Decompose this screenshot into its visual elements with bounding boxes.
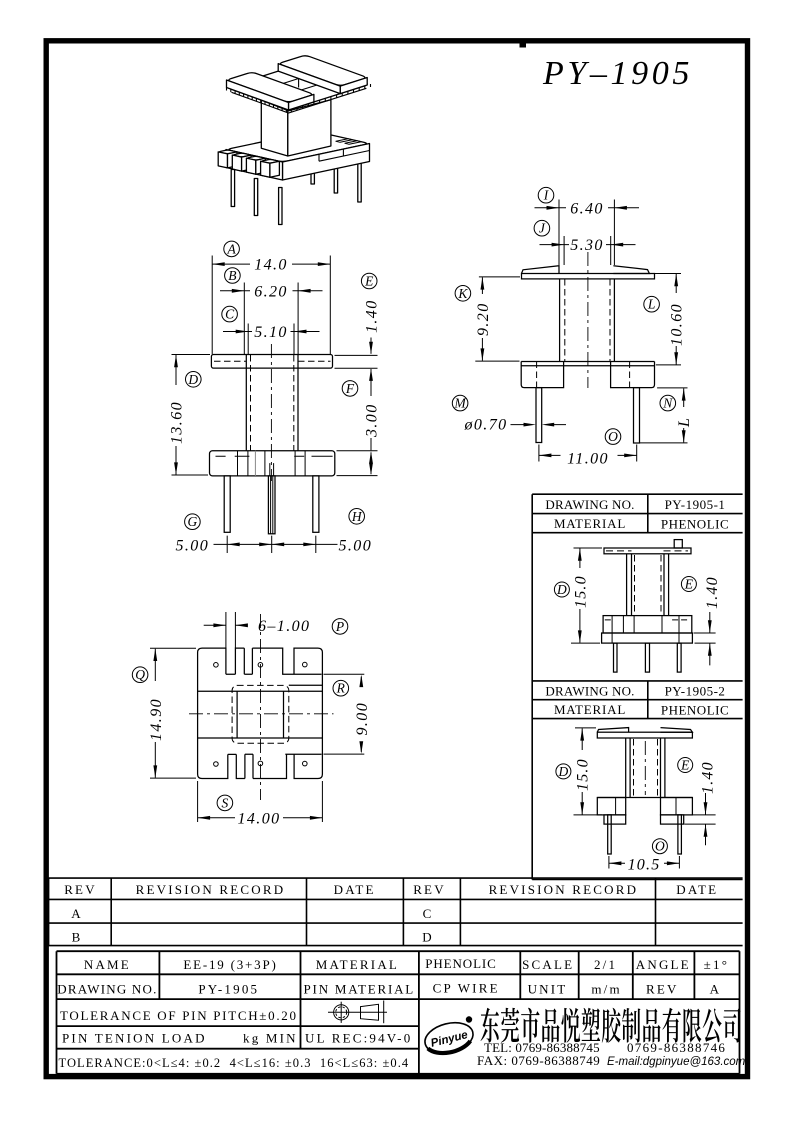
svg-text:6.20: 6.20 [254, 283, 288, 300]
svg-text:DRAWING NO.: DRAWING NO. [545, 497, 634, 512]
svg-text:PY-1905: PY-1905 [198, 981, 259, 996]
right taper [661, 728, 693, 733]
svg-text:10.5: 10.5 [628, 857, 661, 874]
svg-text:C: C [423, 906, 434, 921]
svg-text:M: M [453, 396, 466, 411]
svg-text:UNIT: UNIT [528, 981, 568, 996]
dim 1.40 [694, 633, 716, 643]
svg-text:15.0: 15.0 [575, 758, 592, 791]
hidden in blocks [537, 362, 630, 388]
logo dot [466, 1016, 472, 1022]
pin 2 [268, 476, 275, 534]
slot floors [226, 648, 253, 674]
svg-text:TOLERANCE:0<L≤4: ±0.2 4<L≤16:: TOLERANCE:0<L≤4: ±0.2 4<L≤16: ±0.3 16<L≤… [59, 1056, 410, 1070]
node D [556, 764, 571, 779]
node J [534, 220, 550, 236]
tab [674, 540, 682, 548]
iso front pin 2 [254, 179, 257, 216]
svg-text:DATE: DATE [334, 882, 376, 897]
node I [538, 187, 554, 203]
frame tab mark [520, 39, 527, 48]
svg-text:PY-1905-2: PY-1905-2 [665, 683, 726, 698]
svg-text:MATERIAL: MATERIAL [554, 702, 626, 717]
tube edges [560, 279, 615, 362]
svg-text:15.0: 15.0 [573, 575, 590, 608]
node Q [132, 667, 148, 683]
top flange bar [522, 274, 655, 279]
svg-text:UL REC:94V-0: UL REC:94V-0 [305, 1030, 412, 1045]
svg-text:A: A [710, 981, 722, 996]
svg-text:1.40: 1.40 [700, 761, 717, 794]
dim L [640, 388, 693, 443]
inner window [237, 691, 283, 738]
svg-text:D: D [187, 372, 198, 387]
node M [452, 395, 468, 411]
dim 5.10 [223, 324, 320, 355]
centerline [587, 252, 589, 388]
svg-text:ø0.70: ø0.70 [464, 417, 508, 434]
iso rear pin 4 [311, 163, 314, 184]
pin 3 [313, 476, 319, 532]
company name CJK 东莞市品悦塑胶制品有限公司 [481, 1008, 741, 1043]
svg-text:TOLERANCE OF PIN PITCH±0.20: TOLERANCE OF PIN PITCH±0.20 [60, 1008, 298, 1023]
svg-text:Q: Q [135, 667, 145, 682]
svg-text:B: B [228, 268, 236, 283]
top flange bar [597, 732, 692, 738]
node A [224, 241, 240, 257]
iso base rear notches [336, 139, 352, 143]
hub lines [198, 691, 323, 738]
svg-text:5.00: 5.00 [339, 537, 373, 554]
node P [332, 619, 348, 635]
flange left taper [522, 266, 560, 274]
dim 13.60 [169, 355, 211, 476]
top flange [211, 355, 332, 369]
svg-text:6–1.00: 6–1.00 [258, 618, 310, 635]
svg-text:REV: REV [646, 981, 679, 996]
Pinyue logo [422, 1018, 477, 1058]
svg-text:EE-19 (3+3P): EE-19 (3+3P) [183, 957, 277, 972]
svg-text:O: O [608, 429, 618, 444]
node E [681, 577, 696, 592]
svg-text:E: E [680, 758, 690, 773]
bore hidden [565, 279, 610, 362]
svg-text:D: D [422, 929, 434, 944]
node B [225, 268, 241, 284]
svg-text:PIN TENION LOAD: PIN TENION LOAD [62, 1030, 207, 1045]
dim 9.00 [324, 674, 371, 754]
node E [678, 758, 693, 773]
view PY-1905-2 [556, 728, 717, 874]
svg-text:G: G [188, 514, 198, 529]
collars [604, 815, 626, 824]
iso base body [229, 132, 367, 162]
svg-text:PIN MATERIAL: PIN MATERIAL [304, 981, 416, 996]
svg-text:2/1: 2/1 [594, 957, 617, 972]
svg-text:PHENOLIC: PHENOLIC [661, 703, 729, 718]
svg-text:9.20: 9.20 [475, 302, 492, 336]
centerline [270, 344, 272, 481]
iso flange slab front [229, 73, 312, 102]
svg-text:1.40: 1.40 [704, 576, 721, 609]
dim 10.60 [655, 274, 686, 365]
svg-text:E: E [684, 577, 694, 592]
base right block [611, 362, 655, 388]
svg-text:O: O [655, 839, 665, 854]
hidden core square [232, 685, 289, 743]
node K [455, 286, 471, 302]
iso base tooth 3 [248, 156, 264, 160]
top bar [604, 548, 691, 554]
svg-text:m/m: m/m [591, 981, 621, 996]
iso base wire slot panel [319, 151, 370, 162]
panel borders [532, 494, 742, 879]
iso top flange plate [230, 63, 367, 109]
dim 9.20 [475, 277, 520, 361]
svg-text:MATERIAL: MATERIAL [316, 957, 399, 972]
svg-text:K: K [457, 286, 468, 301]
svg-text:DRAWING NO.: DRAWING NO. [57, 981, 157, 996]
svg-text:D: D [558, 764, 569, 779]
v centerline [260, 614, 262, 800]
svg-text:REVISION RECORD: REVISION RECORD [136, 882, 286, 897]
svg-text:11.00: 11.00 [567, 450, 609, 467]
svg-text:J: J [539, 221, 546, 236]
flange interior [238, 451, 306, 476]
svg-text:PY–1905: PY–1905 [542, 55, 693, 92]
svg-text:FAX: 0769-86388749: FAX: 0769-86388749 [477, 1053, 600, 1068]
node O [605, 429, 621, 445]
iso front pin 1 [231, 170, 234, 207]
node E [361, 273, 377, 289]
svg-text:REV: REV [64, 882, 97, 897]
iso rear pin 5 [334, 160, 337, 193]
node D [554, 582, 569, 597]
dim 14.90 [148, 648, 196, 778]
iso winding tube [261, 100, 288, 156]
dim 11.00 [539, 445, 637, 468]
dim 6.40 [535, 200, 640, 266]
legs [627, 554, 669, 616]
svg-text:CP WIRE: CP WIRE [433, 980, 500, 995]
svg-text:3.00: 3.00 [364, 403, 381, 438]
svg-text:L: L [647, 297, 656, 312]
iso base tooth 4 [262, 160, 278, 164]
iso base tooth 1 [219, 150, 235, 154]
base [597, 797, 692, 799]
svg-text:PY-1905-1: PY-1905-1 [665, 497, 726, 512]
svg-text:14.90: 14.90 [148, 698, 165, 741]
iso front pin 3 [279, 188, 282, 225]
svg-text:10.60: 10.60 [669, 303, 686, 346]
svg-text:kg MIN: kg MIN [243, 1030, 298, 1045]
base [603, 616, 692, 633]
node D [186, 372, 202, 388]
svg-text:A: A [71, 906, 83, 921]
flange hidden line [214, 360, 331, 362]
node H [349, 509, 365, 525]
svg-text:REVISION RECORD: REVISION RECORD [489, 882, 639, 897]
pins [614, 643, 618, 672]
svg-text:L: L [676, 417, 693, 428]
svg-text:P: P [335, 619, 344, 634]
svg-text:MATERIAL: MATERIAL [554, 516, 626, 531]
base [521, 361, 654, 363]
projection symbol cone [328, 1001, 387, 1024]
iso flange slab rear [281, 56, 365, 85]
svg-text:DATE: DATE [676, 882, 718, 897]
node R [333, 680, 349, 696]
dim 14.0 [212, 256, 330, 355]
flange right taper [613, 266, 649, 274]
svg-text:5.10: 5.10 [254, 324, 288, 341]
svg-text:E-mail:dgpinyue@163.com: E-mail:dgpinyue@163.com [607, 1056, 746, 1068]
dim 1.40 [685, 815, 716, 824]
iso core bore opening [272, 79, 316, 94]
svg-text:PHENOLIC: PHENOLIC [425, 956, 496, 971]
tube bore hidden [251, 355, 294, 451]
bottom flange [210, 451, 335, 476]
core tube [246, 355, 298, 451]
dim 5.30 [540, 236, 636, 265]
svg-text:14.0: 14.0 [254, 257, 288, 274]
pin holes [214, 663, 219, 668]
svg-text:5.30: 5.30 [570, 237, 604, 254]
dim 15.0 [571, 548, 602, 643]
svg-text:DRAWING NO.: DRAWING NO. [545, 683, 634, 698]
dim 10.5 [609, 856, 680, 869]
dim 3.00 [337, 403, 381, 475]
rev table grid [49, 878, 743, 946]
view PY-1905-1 [554, 540, 721, 673]
svg-text:±1°: ±1° [704, 957, 729, 972]
dim pin dia 0.70 [464, 417, 567, 434]
pin right [634, 388, 640, 443]
svg-text:N: N [662, 396, 673, 411]
svg-text:ANGLE: ANGLE [636, 957, 691, 972]
svg-text:NAME: NAME [84, 957, 131, 972]
svg-text:D: D [556, 582, 567, 597]
svg-text:F: F [345, 381, 355, 396]
h centerline [189, 713, 334, 715]
svg-text:E: E [364, 274, 374, 289]
node F [342, 381, 358, 397]
dim 6-1.00 [204, 612, 311, 648]
svg-text:9.00: 9.00 [354, 702, 371, 736]
node S [217, 795, 233, 811]
svg-text:A: A [226, 241, 236, 256]
node C [222, 306, 238, 322]
svg-text:B: B [72, 929, 83, 944]
svg-text:6.40: 6.40 [570, 200, 604, 217]
base left block [521, 362, 563, 388]
svg-text:PHENOLIC: PHENOLIC [661, 516, 729, 531]
dim 15.0 [574, 728, 603, 815]
node O [652, 839, 667, 854]
svg-text:REV: REV [413, 882, 446, 897]
pin 1 [224, 476, 230, 532]
node G [185, 514, 201, 530]
pin left [536, 388, 542, 443]
dim 1.40 [335, 299, 381, 396]
plate outline [198, 648, 323, 778]
iso rear pin 6 [358, 157, 361, 202]
title block grid [57, 951, 740, 1074]
svg-text:C: C [225, 307, 235, 322]
pins [608, 815, 612, 854]
dim 5.00 pitch [176, 536, 373, 555]
left taper [597, 728, 628, 733]
legs [626, 738, 665, 798]
svg-text:1.40: 1.40 [364, 299, 381, 333]
svg-text:5.00: 5.00 [176, 537, 210, 554]
svg-text:R: R [336, 681, 346, 696]
svg-text:14.00: 14.00 [238, 810, 281, 827]
svg-text:S: S [222, 795, 229, 810]
svg-text:0769-86388746: 0769-86388746 [627, 1040, 726, 1055]
svg-text:H: H [351, 509, 363, 524]
svg-text:13.60: 13.60 [169, 401, 186, 444]
node L [644, 296, 660, 312]
iso base tooth 2 [234, 153, 250, 157]
dim 6.20 [220, 283, 323, 355]
node N [660, 395, 676, 411]
dim 14.00 [198, 781, 323, 827]
svg-text:SCALE: SCALE [522, 957, 574, 972]
projection symbol circle [334, 1002, 349, 1023]
